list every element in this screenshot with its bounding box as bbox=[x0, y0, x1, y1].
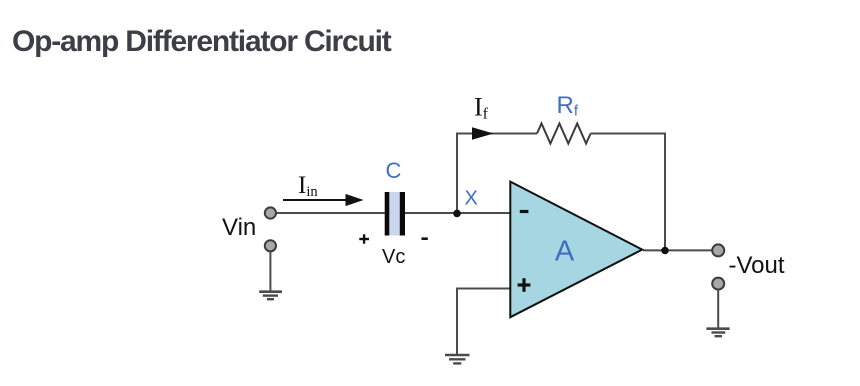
junction output node dot bbox=[661, 247, 669, 255]
junction node X dot bbox=[453, 210, 461, 218]
wire Vin lower terminal to ground bbox=[269, 252, 271, 291]
wire feedback left riser bbox=[457, 134, 537, 214]
svg-text:Iin: Iin bbox=[298, 172, 318, 200]
wire Vin to capacitor bbox=[276, 212, 385, 214]
svg-text:C: C bbox=[386, 158, 402, 183]
terminal Vin lower bbox=[265, 240, 276, 251]
wire feedback right side bbox=[591, 134, 665, 251]
capacitor polarity - bbox=[422, 237, 428, 240]
ground (output) bbox=[706, 329, 729, 337]
resistor Rf bbox=[537, 124, 591, 144]
terminal output upper bbox=[712, 244, 724, 256]
svg-text:Vin: Vin bbox=[222, 214, 256, 241]
wire capacitor to inverting input bbox=[405, 212, 511, 214]
op-amp inverting pin marker - bbox=[520, 210, 529, 213]
ground (non-inverting input) bbox=[445, 355, 470, 363]
svg-text:If: If bbox=[474, 93, 489, 123]
svg-text:Rf: Rf bbox=[557, 92, 579, 120]
ground (Vin) bbox=[259, 292, 282, 300]
current arrow Iin bbox=[283, 194, 364, 206]
capacitor C bbox=[385, 192, 405, 236]
svg-text:X: X bbox=[465, 188, 478, 210]
wire non-inverting input to ground bbox=[457, 289, 510, 355]
terminal output lower bbox=[712, 278, 724, 290]
svg-text:Vc: Vc bbox=[382, 246, 405, 268]
capacitor polarity + bbox=[359, 234, 369, 243]
svg-text:A: A bbox=[555, 236, 575, 268]
op-amp A bbox=[510, 182, 642, 318]
wire output lower terminal to ground bbox=[717, 290, 719, 328]
current arrow If bbox=[472, 127, 494, 140]
terminal Vin upper bbox=[265, 207, 276, 218]
svg-text:-Vout: -Vout bbox=[729, 252, 785, 279]
wire op-amp output bbox=[643, 249, 713, 251]
op-amp non-inverting pin marker + bbox=[518, 278, 531, 292]
